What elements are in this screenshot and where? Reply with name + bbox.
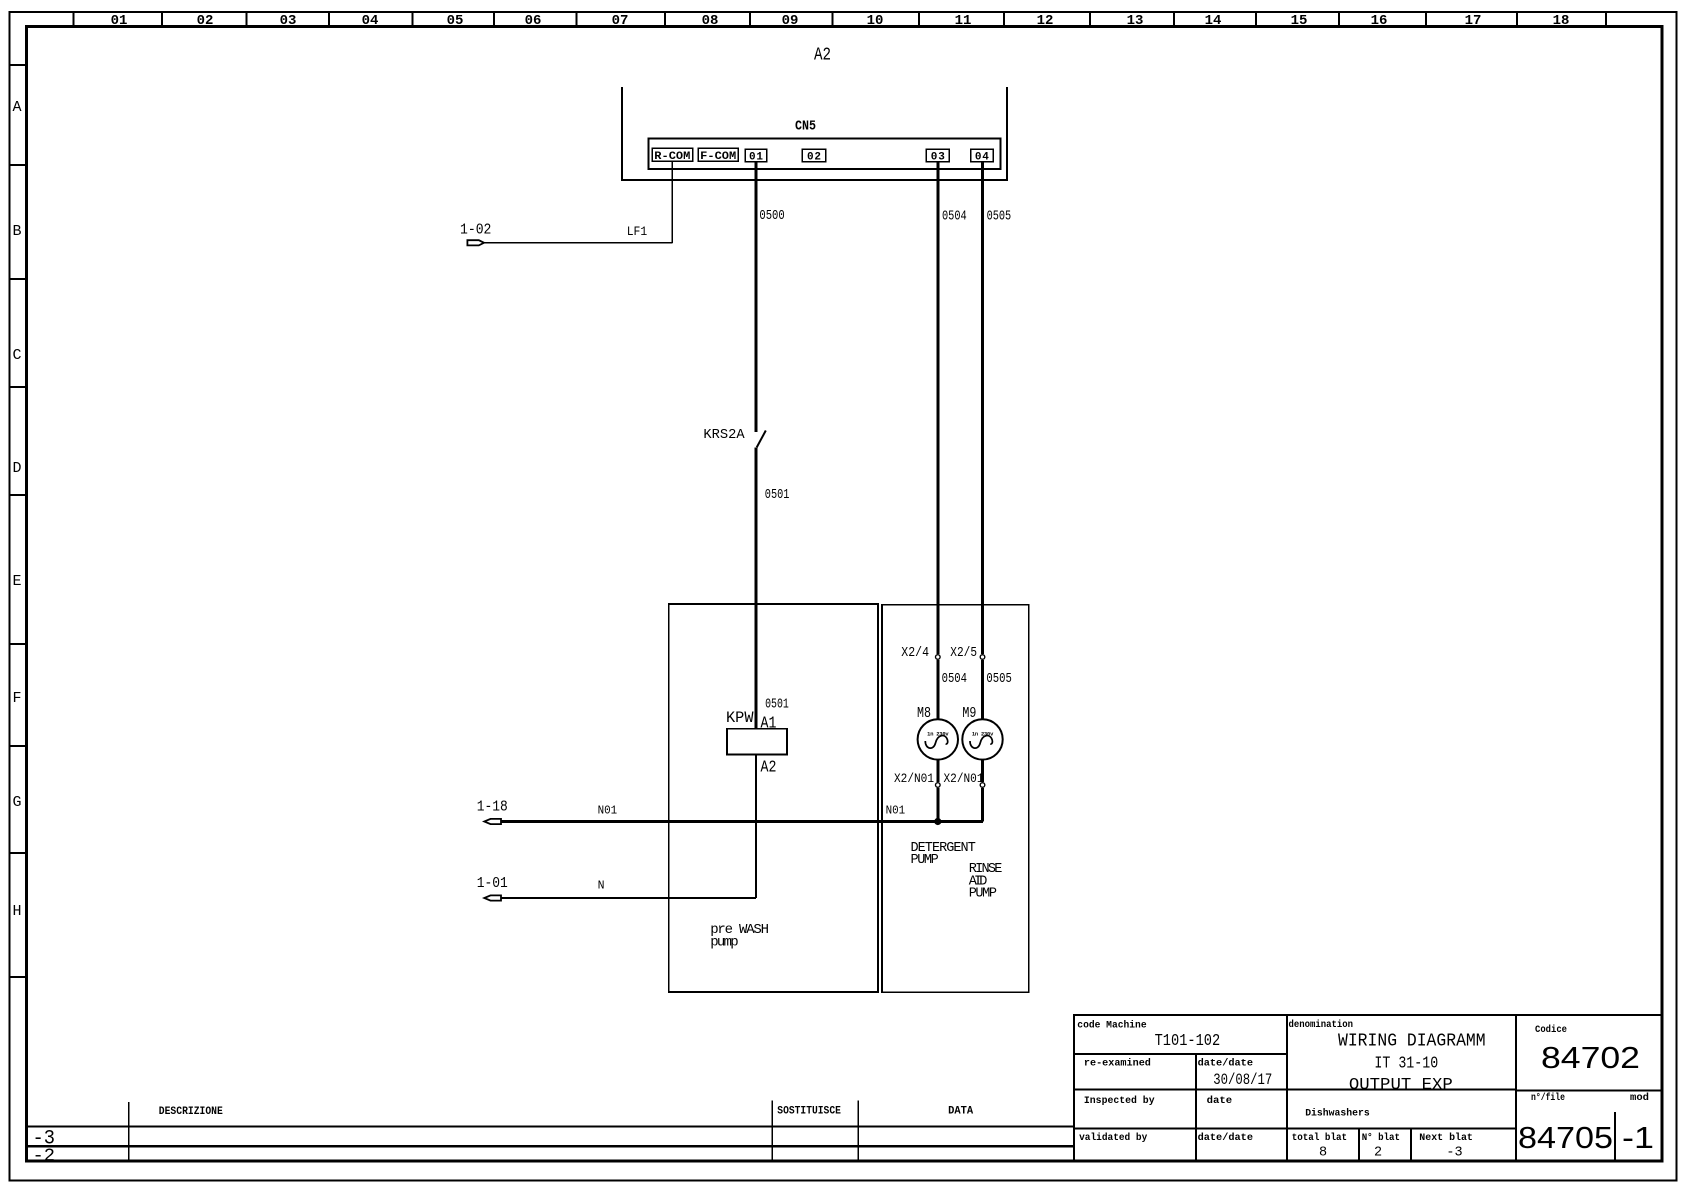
svg-text:n°/file: n°/file	[1531, 1092, 1565, 1104]
wire M9 to X2/N01	[981, 760, 984, 783]
svg-text:B: B	[12, 223, 21, 240]
svg-text:N01: N01	[598, 805, 618, 818]
svg-text:0505: 0505	[986, 672, 1011, 687]
wire N horizontal	[501, 897, 756, 899]
svg-text:04: 04	[362, 13, 379, 29]
terminal lug 1-01	[484, 895, 501, 900]
svg-text:Codice: Codice	[1535, 1024, 1567, 1036]
wire from R-COM down	[671, 162, 673, 243]
revision table divider sostituisce	[771, 1101, 773, 1162]
box detergent/rinse pumps	[882, 605, 1029, 993]
terminal 04	[971, 149, 994, 163]
svg-text:DATA: DATA	[948, 1106, 973, 1118]
svg-text:X2/N01: X2/N01	[894, 772, 934, 786]
title block divider codice	[1515, 1015, 1517, 1161]
svg-text:1-18: 1-18	[477, 798, 508, 815]
svg-text:A: A	[12, 99, 21, 116]
svg-text:code Machine: code Machine	[1077, 1020, 1146, 1032]
svg-text:8: 8	[1319, 1145, 1327, 1160]
svg-text:12: 12	[1037, 13, 1054, 29]
svg-text:02: 02	[197, 13, 214, 29]
svg-text:02: 02	[807, 152, 821, 164]
row tick marks left band	[10, 65, 27, 977]
wire 0505 from terminal 04	[981, 162, 984, 655]
terminal lug 1-02	[467, 240, 484, 245]
svg-text:1-02: 1-02	[460, 222, 491, 239]
svg-text:date/date: date/date	[1198, 1132, 1253, 1144]
label pre WASH pump	[710, 922, 769, 951]
svg-text:M9: M9	[962, 705, 976, 722]
svg-text:F: F	[12, 690, 21, 707]
svg-text:07: 07	[612, 13, 629, 29]
svg-text:Inspected by: Inspected by	[1084, 1095, 1155, 1107]
motor M9 rinse aid pump	[962, 719, 1002, 759]
svg-text:date/date: date/date	[1198, 1058, 1253, 1070]
wire X2/N01 M8 down	[936, 788, 939, 822]
svg-text:validated by: validated by	[1079, 1132, 1147, 1144]
connector CN5 box	[649, 139, 1001, 170]
svg-text:F-COM: F-COM	[700, 151, 736, 163]
label DETERGENT PUMP	[911, 841, 976, 868]
n/file mod divider	[1614, 1112, 1616, 1161]
svg-text:total blat: total blat	[1292, 1132, 1347, 1144]
svg-text:DESCRIZIONE: DESCRIZIONE	[159, 1106, 223, 1118]
svg-text:pump: pump	[710, 935, 738, 951]
relay coil KPW	[727, 729, 787, 755]
svg-text:N: N	[598, 880, 605, 893]
svg-text:01: 01	[111, 13, 128, 29]
svg-text:KRS2A: KRS2A	[703, 428, 745, 443]
svg-text:17: 17	[1465, 13, 1482, 29]
svg-text:mod: mod	[1630, 1092, 1649, 1104]
revision table header line	[27, 1125, 1075, 1127]
svg-text:-3: -3	[1446, 1145, 1462, 1160]
codice row line	[1516, 1090, 1662, 1092]
svg-text:0501: 0501	[765, 698, 789, 713]
svg-text:13: 13	[1127, 13, 1144, 29]
svg-text:30/08/17: 30/08/17	[1213, 1071, 1272, 1089]
title block left inner divider	[1195, 1054, 1197, 1161]
svg-text:84702: 84702	[1541, 1040, 1640, 1075]
svg-text:08: 08	[702, 13, 719, 29]
node X2/N01 M9	[980, 783, 985, 788]
svg-text:1-01: 1-01	[477, 875, 508, 892]
title block left rows	[1074, 1054, 1287, 1129]
svg-text:H: H	[12, 903, 21, 920]
svg-text:G: G	[12, 794, 21, 811]
terminal lug 1-18	[484, 819, 501, 824]
svg-text:-1: -1	[1622, 1120, 1654, 1155]
svg-text:R-COM: R-COM	[654, 151, 690, 163]
junction N01	[934, 818, 941, 825]
title block outline	[1074, 1015, 1662, 1161]
column numbers 01-18	[111, 13, 1570, 29]
svg-text:09: 09	[782, 13, 799, 29]
svg-text:KPW: KPW	[726, 709, 754, 727]
terminal 03	[926, 149, 949, 163]
svg-text:X2/5: X2/5	[950, 646, 977, 661]
svg-text:LF1: LF1	[627, 224, 648, 239]
title block divider denomination	[1286, 1015, 1288, 1161]
svg-text:0505: 0505	[987, 210, 1012, 225]
svg-text:IT 31-10: IT 31-10	[1374, 1054, 1438, 1073]
svg-text:M8: M8	[917, 705, 931, 722]
svg-text:re-examined: re-examined	[1084, 1058, 1151, 1070]
denomination rows	[1287, 1090, 1516, 1129]
svg-text:X2/N01: X2/N01	[944, 772, 984, 786]
switch KRS2A blade	[757, 431, 766, 448]
terminal R-COM	[652, 148, 693, 163]
svg-text:Dishwashers: Dishwashers	[1305, 1108, 1370, 1120]
blat column dividers	[1359, 1129, 1411, 1162]
module A2 outline bracket	[622, 87, 1007, 180]
node X2/4	[936, 655, 941, 660]
box pre wash pump	[669, 604, 878, 992]
terminal 01	[745, 149, 766, 163]
node X2/5	[980, 655, 985, 660]
label RINSE AID PUMP	[969, 862, 1003, 902]
svg-text:-2: -2	[33, 1146, 56, 1167]
svg-text:C: C	[12, 347, 21, 364]
svg-text:A2: A2	[761, 758, 777, 777]
svg-text:X2/4: X2/4	[901, 646, 929, 661]
column tick marks top band	[73, 12, 1606, 27]
wire M8 to X2/N01	[936, 760, 939, 783]
svg-text:14: 14	[1205, 13, 1222, 29]
revision table row line	[25, 1145, 1074, 1147]
terminal 02	[802, 149, 825, 163]
terminal F-COM	[698, 148, 738, 163]
svg-text:Next blat: Next blat	[1419, 1132, 1473, 1144]
wire LF1 horizontal	[484, 242, 672, 244]
wire 0501	[755, 447, 758, 728]
svg-text:0500: 0500	[759, 209, 784, 224]
row letters A-H	[12, 99, 21, 920]
svg-text:E: E	[12, 573, 21, 590]
svg-text:WIRING DIAGRAMM: WIRING DIAGRAMM	[1338, 1031, 1486, 1052]
wire X2/N01 M9 down	[981, 788, 984, 822]
svg-text:05: 05	[447, 13, 464, 29]
wire from coil A2 down	[755, 754, 757, 898]
motor M8 detergent pump	[918, 719, 958, 759]
svg-text:T101-102: T101-102	[1155, 1031, 1221, 1050]
svg-text:15: 15	[1291, 13, 1308, 29]
svg-text:03: 03	[280, 13, 297, 29]
wire 0504 from terminal 03	[936, 162, 939, 655]
svg-text:PUMP: PUMP	[969, 887, 997, 902]
svg-text:denomination: denomination	[1289, 1019, 1354, 1031]
svg-text:CN5: CN5	[795, 120, 816, 135]
svg-text:18: 18	[1553, 13, 1570, 29]
svg-text:0501: 0501	[765, 488, 790, 503]
wire N01 horizontal	[501, 820, 983, 823]
svg-text:84705: 84705	[1518, 1120, 1613, 1155]
revision table divider left	[128, 1102, 130, 1161]
svg-text:A2: A2	[814, 46, 831, 66]
svg-text:D: D	[12, 460, 21, 477]
node X2/N01 M8	[936, 783, 941, 788]
wire X2/4 to M8	[936, 660, 939, 719]
svg-text:0504: 0504	[942, 210, 967, 225]
svg-text:0504: 0504	[942, 672, 967, 687]
wire X2/5 to M9	[981, 660, 984, 719]
svg-text:10: 10	[867, 13, 884, 29]
svg-text:SOSTITUISCE: SOSTITUISCE	[777, 1106, 841, 1118]
svg-text:2: 2	[1374, 1145, 1382, 1160]
wire 0500	[755, 162, 758, 432]
svg-text:OUTPUT EXP: OUTPUT EXP	[1349, 1076, 1453, 1095]
svg-text:date: date	[1207, 1095, 1233, 1107]
svg-text:11: 11	[955, 13, 972, 29]
svg-text:N° blat: N° blat	[1362, 1132, 1400, 1144]
svg-text:PUMP: PUMP	[911, 853, 939, 868]
svg-text:06: 06	[525, 13, 542, 29]
svg-text:N01: N01	[886, 805, 906, 818]
revision table divider data	[857, 1101, 859, 1162]
svg-text:16: 16	[1371, 13, 1388, 29]
